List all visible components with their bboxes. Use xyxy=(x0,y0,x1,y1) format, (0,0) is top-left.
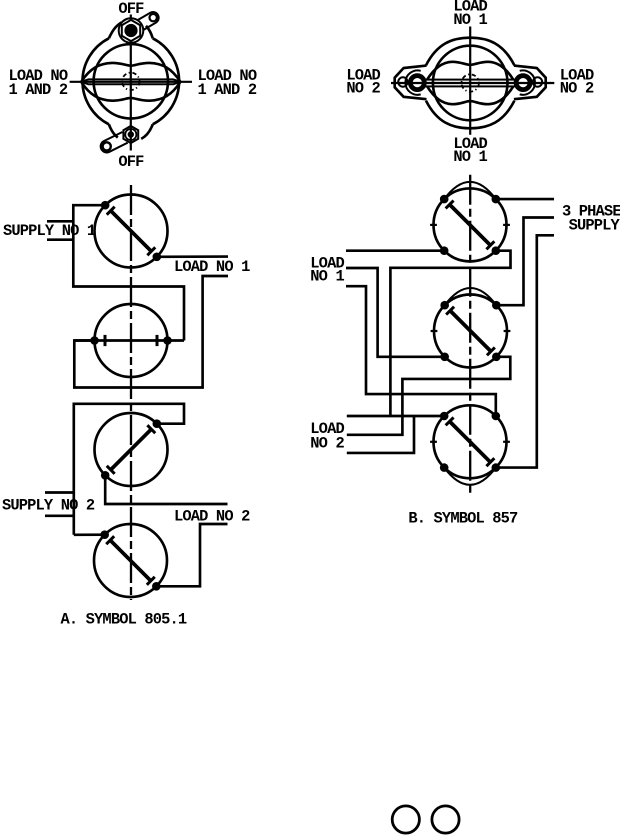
label LOAD NO 1 (schematic B) xyxy=(310,254,344,285)
rotary switch S2 - body dome top xyxy=(426,38,514,66)
rotary switch S1 - top lug hole xyxy=(150,14,157,21)
caption B. SYMBOL 857 xyxy=(408,510,518,528)
wire supply no 2 bus top xyxy=(74,404,184,535)
label LOAD NO 1 xyxy=(174,258,250,276)
pole B3 bridging arc xyxy=(444,468,496,485)
pole B1 bridging arc xyxy=(444,182,496,199)
wire pole A1 to load no 1 xyxy=(157,255,228,258)
pole B1 contact dot top-right xyxy=(492,195,501,204)
wire pole A2 right horizontal xyxy=(168,339,185,342)
rotary switch S1 - top terminal hex nut xyxy=(122,20,140,41)
switch pole A4 circle xyxy=(94,524,167,597)
svg-text:A. SYMBOL 805.1: A. SYMBOL 805.1 xyxy=(61,610,187,628)
pole A3 contact dot top-right xyxy=(153,419,162,428)
rotary switch S1 - OFF label bottom xyxy=(118,153,144,171)
wire B1 bottom-right jog xyxy=(390,251,510,416)
rotary switch S1 - bottom solder lug xyxy=(101,132,128,152)
wire supply no 1 upper stub xyxy=(47,220,73,223)
svg-text:SUPPLY: SUPPLY xyxy=(569,216,620,234)
wire load no 1 lower stub xyxy=(74,276,228,388)
wire phase C to pole B3 xyxy=(496,235,554,467)
rotary switch S1 - bottom terminal circle xyxy=(125,129,136,140)
wire load no 1 lower stub to B3 xyxy=(346,286,496,416)
label 3 PHASE SUPPLY xyxy=(562,202,620,234)
rotary switch S2 - vertical center line xyxy=(469,27,471,135)
rotary switch S1 - top solder lug xyxy=(138,12,159,30)
pole B2 blade xyxy=(446,307,495,356)
label LOAD NO 1 AND 2 (right) xyxy=(198,67,257,99)
svg-text:SUPPLY NO 1: SUPPLY NO 1 xyxy=(3,222,96,240)
pole A2 blade caps xyxy=(105,335,157,346)
label LOAD NO 1 AND 2 (left) xyxy=(9,67,68,99)
pole B3 contact dot top-right xyxy=(492,412,501,421)
pole B2 contact dot top-left xyxy=(440,301,449,310)
page mark circle left xyxy=(392,806,419,833)
label SUPPLY NO 1 xyxy=(3,222,96,240)
pole B2 contact dot bottom-right xyxy=(492,353,501,362)
pole B3 contact dot bottom-left xyxy=(440,463,449,472)
rotary switch S1 - top terminal screw (filled) xyxy=(124,24,137,37)
schematic A - mechanical linkage dashed line xyxy=(130,185,132,600)
label SUPPLY NO 2 xyxy=(2,497,95,515)
pole A1 blade xyxy=(107,207,156,256)
rotary switch S2 - LOAD NO 1 label bottom xyxy=(453,135,487,166)
rotary switch S2 pictorial - LOAD NO 1 label top xyxy=(453,0,487,29)
label LOAD NO 2 (schematic B) xyxy=(310,420,344,453)
rotary switch S1 - bottom terminal screw (filled) xyxy=(128,131,134,137)
label LOAD NO 2 (right) xyxy=(560,66,594,97)
switch pole B1 circle xyxy=(430,188,510,261)
pole B1 contact dot bottom-left xyxy=(440,246,449,255)
page mark circle right xyxy=(432,806,459,833)
switch pole A3 circle xyxy=(95,413,168,486)
label LOAD NO 2 xyxy=(174,508,250,526)
wire supply no 1 bus xyxy=(73,205,184,340)
svg-text:NO 1: NO 1 xyxy=(310,268,344,286)
rotary switch S2 - right washer arc xyxy=(520,70,535,94)
rotary switch S2 - left washer arc xyxy=(405,70,420,94)
rotary switch S2 - left terminal flange xyxy=(395,66,427,100)
rotary switch S2 - right terminal flange xyxy=(514,66,546,100)
wire phase A to pole B1 xyxy=(496,198,554,201)
rotary switch S1 - top terminal washer circle xyxy=(119,18,144,43)
svg-text:SUPPLY NO 2: SUPPLY NO 2 xyxy=(2,497,95,515)
rotary switch S2 - horizontal center line xyxy=(391,82,554,84)
pole A1 contact dot top-left xyxy=(101,201,110,210)
pole A2 contact dot right xyxy=(163,336,172,345)
rotary switch S1 - upper cam curve xyxy=(82,63,181,81)
switch pole B3 circle xyxy=(430,405,510,478)
wire load no 1 upper stub to B1 xyxy=(346,249,444,252)
pole B1 blade xyxy=(446,201,495,250)
switch pole A1 circle xyxy=(95,195,168,268)
wire supply no 2 to pole A4 xyxy=(74,533,105,536)
rotary switch S1 pictorial - OFF label top xyxy=(118,0,144,18)
pole A3 contact dot bottom-left xyxy=(101,471,110,480)
wire pole A2 blade bar xyxy=(74,339,167,342)
rotary switch S2 - lower cam curve xyxy=(427,86,513,104)
svg-text:B. SYMBOL 857: B. SYMBOL 857 xyxy=(408,510,518,528)
rotary switch S1 - top neck left xyxy=(109,22,122,38)
rotary switch S1 - contact blade xyxy=(81,79,181,84)
switch pole A2 circle xyxy=(95,304,168,377)
svg-text:OFF: OFF xyxy=(118,153,144,171)
rotary switch S2 - left nut ring xyxy=(410,76,424,90)
svg-text:NO 2: NO 2 xyxy=(346,80,380,98)
pole B3 contact dot bottom-right xyxy=(492,463,501,472)
pole A1 contact dot bottom-right xyxy=(153,253,162,262)
wire pole A3 to load no 2 xyxy=(105,475,227,504)
rotary switch S1 - vertical center line xyxy=(130,15,132,151)
rotary switch S1 - bottom terminal hex nut xyxy=(123,126,138,143)
wire supply no 1 lower stub xyxy=(47,238,73,241)
pole B2 contact dot bottom-left xyxy=(440,353,449,362)
wire load no 2 lower stub xyxy=(156,524,227,586)
pole B2 contact dot top-right xyxy=(492,301,501,310)
svg-text:1 AND 2: 1 AND 2 xyxy=(9,81,68,99)
svg-text:NO 2: NO 2 xyxy=(560,80,594,98)
wire load no 1 mid stub to B2 xyxy=(346,268,445,357)
rotary switch S1 - lower cam curve xyxy=(82,82,181,100)
pole B1 contact dot bottom-right xyxy=(492,246,501,255)
svg-text:LOAD NO 1: LOAD NO 1 xyxy=(174,258,250,276)
schematic B - mechanical linkage dashed line xyxy=(469,175,471,497)
wire load no 2 mid stub to B2 xyxy=(347,357,511,435)
pole B2 bridging arc xyxy=(445,288,497,305)
rotary switch S1 - rotor circle xyxy=(94,44,168,118)
switch pole B2 circle xyxy=(431,295,511,368)
rotary switch S1 - bottom lug hole xyxy=(103,142,111,150)
pole A2 contact dot left xyxy=(90,336,99,345)
pole B3 blade xyxy=(446,417,495,466)
svg-text:1 AND 2: 1 AND 2 xyxy=(198,81,257,99)
pole B3 contact dot top-left xyxy=(440,412,449,421)
svg-text:NO 1: NO 1 xyxy=(453,148,487,166)
rotary switch S1 - top neck right xyxy=(146,26,153,39)
pole A4 blade xyxy=(106,536,155,585)
pole A3 blade xyxy=(107,425,156,474)
rotary switch S2 - left flange hole xyxy=(398,77,407,86)
rotary switch S2 - right flange hole xyxy=(533,77,542,86)
rotary switch S2 - upper cam curve xyxy=(427,62,513,80)
rotary switch S1 - body outline right arc xyxy=(153,38,179,124)
pole B1 contact dot top-left xyxy=(440,195,449,204)
caption A. SYMBOL 805.1 xyxy=(61,610,187,628)
svg-text:LOAD NO 2: LOAD NO 2 xyxy=(174,508,250,526)
wire supply no 2 upper stub xyxy=(45,491,74,494)
label LOAD NO 2 (left) xyxy=(346,66,380,97)
rotary switch S1 - body outline left arc xyxy=(83,38,109,124)
rotary switch S1 - center dashed circle xyxy=(122,73,139,90)
rotary switch S1 - bottom neck left xyxy=(109,124,118,137)
pole A4 contact dot top-left xyxy=(100,530,109,539)
rotary switch S1 - bottom neck right xyxy=(141,124,153,139)
pole A4 contact dot bottom-right xyxy=(152,582,161,591)
rotary switch S2 - body dome bottom xyxy=(426,101,514,129)
rotary switch S1 - horizontal center line xyxy=(70,81,192,83)
svg-text:NO 1: NO 1 xyxy=(453,11,487,29)
wire load no 2 upper stub to B3 xyxy=(347,415,444,418)
rotary switch S2 - rotor circle xyxy=(433,46,508,121)
svg-text:NO 2: NO 2 xyxy=(310,435,344,453)
wire phase B to pole B2 xyxy=(496,218,554,306)
rotary switch S2 - right nut ring xyxy=(516,76,530,90)
rotary switch S2 - center dashed circle xyxy=(462,74,479,91)
rotary switch S2 - contact blade xyxy=(425,80,516,87)
wire supply no 2 lower stub xyxy=(45,514,74,517)
wire load no 2 lower stub xyxy=(347,416,414,453)
